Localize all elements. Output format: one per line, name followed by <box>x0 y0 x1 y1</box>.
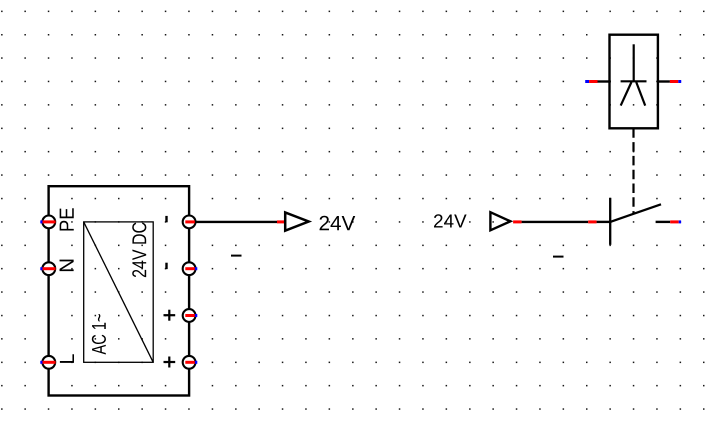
connection point (red) at contact pin <box>588 220 596 223</box>
mechanical link (dashed) between actuator and contact <box>632 128 634 214</box>
connection point (red) at right arrow <box>513 220 522 223</box>
terminal - (output 2) of G1 <box>167 262 198 275</box>
connection point (red) at arrow <box>277 220 286 223</box>
value label AC 1~ <box>92 314 106 354</box>
wire-number placeholder dash (right) <box>553 256 564 258</box>
contact S1: right pin stub with connection point <box>656 221 682 223</box>
wire from right arrow to contact S1 <box>522 221 589 223</box>
value label 24V DC <box>132 222 146 277</box>
actuator right pin stub with connection point <box>657 80 681 82</box>
contact S1: moving blade <box>610 204 661 222</box>
net label 24V (left) <box>320 216 356 230</box>
contact S1: fixed pole bar <box>609 198 611 245</box>
actuator left pin stub with connection point <box>585 80 611 83</box>
terminal + (output 4) of G1 <box>164 356 198 369</box>
terminal N of G1 <box>40 260 73 275</box>
wire from terminal + of G1 to 24V source arrow <box>189 221 277 223</box>
terminal + (output 3) of G1 <box>164 309 198 322</box>
terminal L of G1 <box>40 354 74 368</box>
wire-number placeholder dash (left) <box>231 255 242 257</box>
signal source arrow 24V (left) <box>285 212 309 230</box>
terminal PE of G1 <box>40 208 73 230</box>
terminal - (output 1) of G1 <box>167 216 196 229</box>
wire into contact pivot <box>597 221 612 223</box>
power supply unit G1 outline <box>49 186 190 395</box>
signal source arrow 24V (right) <box>490 212 510 230</box>
net label 24V (right) <box>434 214 467 227</box>
actuator (emergency-stop operator) box <box>610 35 658 129</box>
actuator symbol inside box <box>621 44 647 105</box>
rectifier symbol (AC/DC converter inner box with diagonal) <box>84 222 154 362</box>
